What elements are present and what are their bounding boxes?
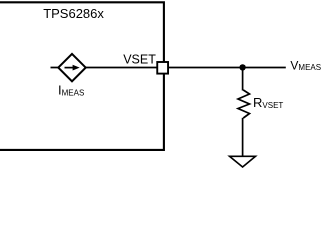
svg-text:TPS6286x: TPS6286x bbox=[43, 6, 104, 21]
svg-text:VMEAS: VMEAS bbox=[290, 58, 321, 72]
svg-text:RVSET: RVSET bbox=[253, 95, 283, 110]
svg-text:VSET: VSET bbox=[123, 53, 156, 67]
svg-text:IMEAS: IMEAS bbox=[58, 82, 84, 97]
